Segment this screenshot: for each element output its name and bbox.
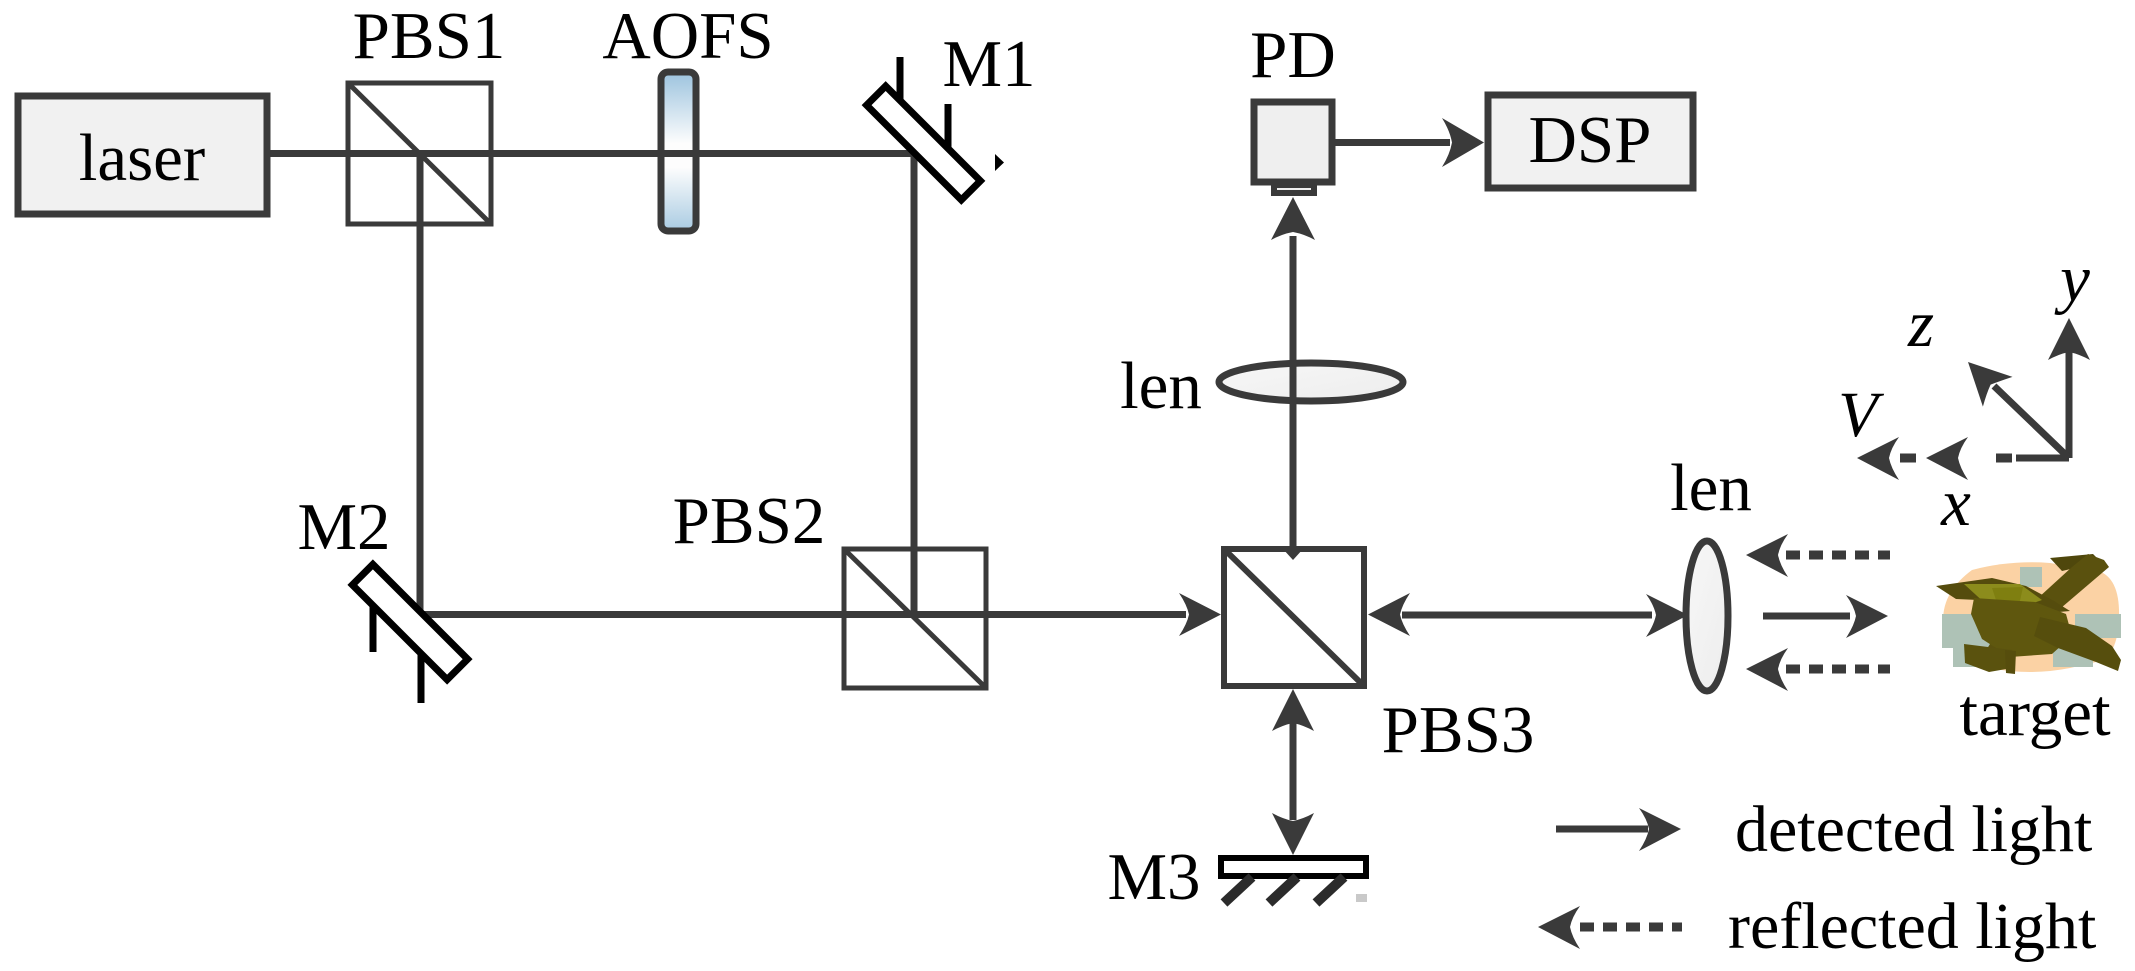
arrowhead up into PBS3 bottom: [1272, 689, 1314, 731]
svg-text:x: x: [1940, 466, 1971, 540]
detected light arrow toward target (after lens): [1763, 595, 1888, 638]
svg-text:PBS1: PBS1: [353, 0, 506, 73]
wire PD down through lens to PBS3: [1290, 236, 1297, 553]
svg-text:z: z: [1907, 287, 1934, 361]
svg-text:PD: PD: [1250, 18, 1336, 92]
laser source box: [18, 96, 267, 214]
reflected light dashed arrow (upper): [1746, 534, 1890, 577]
arrowhead into right lens: [1646, 594, 1688, 637]
svg-text:detected light: detected light: [1735, 793, 2092, 866]
legend detected light arrow: [1556, 808, 1681, 851]
svg-text:M1: M1: [942, 27, 1035, 101]
acousto-optic frequency shifter AOFS: [661, 72, 696, 231]
arrowhead into PD: [1271, 197, 1315, 240]
axis y: [2048, 318, 2090, 458]
beam splitter PBS3: [1224, 549, 1364, 686]
wire M2 to PBS3: [416, 611, 1186, 618]
target airplane image: [1936, 554, 2121, 674]
beam splitter PBS1: [348, 83, 491, 224]
small tip where beam enters PBS3 top: [1283, 549, 1303, 560]
axis x with dashed V extension: [1900, 437, 2069, 480]
svg-text:PBS3: PBS3: [1382, 693, 1535, 767]
svg-text:M3: M3: [1107, 840, 1200, 914]
svg-text:AOFS: AOFS: [602, 0, 773, 73]
wire M1 down to PBS2: [911, 150, 918, 617]
objective lens (vertical, toward target): [1686, 541, 1728, 691]
collimating lens (horizontal, before PD): [1219, 363, 1403, 401]
mirror M1: [867, 57, 1004, 200]
axis z: [1968, 362, 2069, 458]
svg-text:DSP: DSP: [1529, 103, 1652, 177]
wire PBS3 to M3 (double arrow shaft): [1290, 722, 1297, 820]
svg-text:PBS2: PBS2: [673, 484, 826, 558]
svg-text:laser: laser: [79, 121, 205, 195]
legend reflected light dashed arrow: [1538, 906, 1682, 949]
svg-text:len: len: [1670, 451, 1752, 525]
DSP box: [1488, 95, 1693, 188]
mirror M3: [1221, 858, 1367, 903]
arrowhead beam into PBS3 left: [1179, 593, 1221, 636]
reflected light dashed arrow (lower): [1746, 648, 1890, 691]
wire laser to M1: [267, 150, 917, 157]
photodetector PD box: [1254, 102, 1332, 193]
velocity V dashed arrowhead: [1857, 437, 1899, 480]
wire PBS3 to lens: [1402, 612, 1652, 619]
svg-text:y: y: [2054, 242, 2090, 316]
beam splitter PBS2: [844, 549, 986, 688]
arrowhead beam into PBS3 right: [1368, 593, 1410, 636]
svg-text:V: V: [1838, 379, 1884, 451]
wire PD to DSP: [1332, 139, 1450, 146]
mirror M2: [352, 564, 467, 703]
wire PBS1 down to M2: [417, 153, 424, 618]
svg-text:M2: M2: [297, 490, 390, 564]
arrowhead into DSP: [1442, 118, 1484, 167]
svg-text:target: target: [1959, 676, 2111, 750]
svg-text:reflected light: reflected light: [1728, 890, 2096, 963]
svg-text:len: len: [1120, 349, 1202, 423]
arrowhead down onto M3: [1272, 813, 1314, 855]
